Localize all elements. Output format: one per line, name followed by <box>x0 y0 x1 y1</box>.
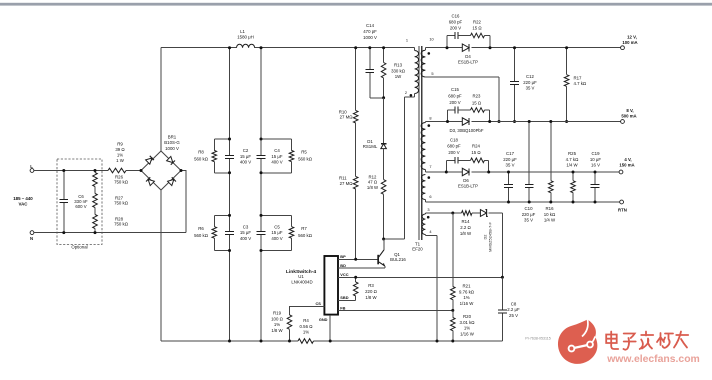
svg-text:600 V: 600 V <box>75 204 86 209</box>
elecfans watermark logo <box>558 320 597 364</box>
svg-text:560 kΩ: 560 kΩ <box>194 156 209 161</box>
svg-text:8 V,: 8 V, <box>626 108 633 113</box>
resistor R14 <box>462 211 473 216</box>
svg-text:1W: 1W <box>395 74 402 79</box>
svg-text:PI-7638-053115: PI-7638-053115 <box>525 337 551 341</box>
wire collector node <box>384 238 405 240</box>
svg-text:R20: R20 <box>463 314 472 319</box>
input terminal N <box>30 231 34 235</box>
svg-text:R23: R23 <box>473 94 481 99</box>
svg-text:16 V: 16 V <box>591 163 600 168</box>
svg-text:R19: R19 <box>273 311 282 316</box>
bridge rectifier BR1 <box>141 151 181 190</box>
svg-text:680 pF: 680 pF <box>448 94 462 99</box>
svg-text:27 MΩ: 27 MΩ <box>340 181 354 186</box>
svg-text:12 V,: 12 V, <box>627 34 637 39</box>
svg-text:3.01 kΩ: 3.01 kΩ <box>459 320 475 325</box>
svg-text:2.2 μF: 2.2 μF <box>507 307 520 312</box>
svg-text:400 V: 400 V <box>240 236 251 241</box>
svg-text:R9: R9 <box>117 142 123 147</box>
svg-text:N: N <box>30 236 33 241</box>
svg-text:RS1ML: RS1ML <box>363 144 378 149</box>
svg-text:1%: 1% <box>303 330 309 335</box>
bus wire 2 <box>260 48 262 156</box>
svg-text:C4: C4 <box>274 148 280 153</box>
svg-text:200 V: 200 V <box>448 150 459 155</box>
svg-text:CS: CS <box>315 301 321 306</box>
svg-text:15 μF: 15 μF <box>240 230 252 235</box>
output terminal 4V <box>619 170 623 174</box>
elecfans watermark text <box>606 332 688 350</box>
svg-text:6: 6 <box>429 194 431 199</box>
svg-text:D2: D2 <box>482 235 487 240</box>
resistor R13 <box>383 48 385 63</box>
svg-text:LNK4004D: LNK4004D <box>291 280 312 285</box>
svg-text:C10: C10 <box>525 206 534 211</box>
svg-text:R25: R25 <box>568 151 577 156</box>
diode D1 <box>383 98 385 144</box>
svg-text:ES1B-LTP: ES1B-LTP <box>458 59 478 64</box>
pin BP <box>338 258 378 260</box>
resistor R7 <box>291 215 293 226</box>
svg-text:9.76 kΩ: 9.76 kΩ <box>459 289 475 294</box>
svg-text:220 μF: 220 μF <box>503 157 517 162</box>
svg-text:VAC: VAC <box>19 202 29 207</box>
resistor R10 <box>355 48 357 111</box>
capacitor C3 <box>225 231 234 233</box>
capacitor C4 <box>257 154 266 156</box>
svg-text:560 kΩ: 560 kΩ <box>298 156 313 161</box>
input terminal L <box>30 169 34 173</box>
svg-text:1000 V: 1000 V <box>363 35 377 40</box>
svg-text:1/8 W: 1/8 W <box>271 328 283 333</box>
snubber C15 R23 branch <box>447 110 449 122</box>
svg-text:C16: C16 <box>452 13 460 18</box>
svg-text:10 kΩ: 10 kΩ <box>544 212 556 217</box>
svg-text:2.2 Ω: 2.2 Ω <box>460 225 471 230</box>
svg-text:560 kΩ: 560 kΩ <box>194 233 209 238</box>
svg-text:R21: R21 <box>463 284 472 289</box>
svg-text:BR1: BR1 <box>168 135 177 140</box>
capacitor C19 <box>594 172 596 184</box>
resistor R25 <box>572 172 574 181</box>
diode D4 <box>462 44 469 51</box>
svg-text:FB: FB <box>340 305 345 310</box>
svg-text:C8: C8 <box>511 301 517 306</box>
wire drain riser to pin 2 <box>404 97 406 239</box>
svg-text:D6: D6 <box>463 178 469 183</box>
svg-text:27 MΩ: 27 MΩ <box>340 115 354 120</box>
svg-text:200 V: 200 V <box>450 25 461 30</box>
svg-text:1/8 W: 1/8 W <box>367 185 379 190</box>
svg-text:220 μF: 220 μF <box>522 212 536 217</box>
wire 8V rail <box>425 121 462 123</box>
capacitor C5 <box>257 231 266 233</box>
svg-text:R8: R8 <box>198 150 204 155</box>
transformer secondary winding 7-6 <box>421 175 425 200</box>
diode D6 <box>462 168 469 175</box>
pin CS <box>290 306 325 314</box>
snubber C18 R24 branch <box>445 160 447 172</box>
svg-text:R12: R12 <box>369 174 377 179</box>
pin BD <box>338 267 385 269</box>
wire aux pin3 line <box>425 212 461 214</box>
transformer secondary winding 10-5 <box>424 48 426 51</box>
svg-text:1580 μH: 1580 μH <box>237 34 254 39</box>
transistor Q1 <box>354 258 357 261</box>
svg-text:15 μF: 15 μF <box>271 154 283 159</box>
pin SBD <box>338 299 356 301</box>
svg-text:R5: R5 <box>301 150 307 155</box>
svg-text:R16: R16 <box>546 206 555 211</box>
svg-text:470 pF: 470 pF <box>363 29 377 34</box>
svg-text:BD: BD <box>340 263 346 268</box>
svg-text:680 pF: 680 pF <box>447 144 461 149</box>
aux polarity dot pin3 <box>427 216 430 219</box>
svg-text:R7: R7 <box>301 226 307 231</box>
secondary polarity dot pin10 <box>428 52 431 55</box>
node group upper <box>214 138 229 140</box>
svg-text:100 Ω: 100 Ω <box>271 316 283 321</box>
svg-text:750 kΩ: 750 kΩ <box>114 180 129 185</box>
svg-text:EF20: EF20 <box>412 247 423 252</box>
svg-text:BUL216: BUL216 <box>390 257 406 262</box>
capacitor C14 <box>369 48 371 70</box>
svg-text:0.56 Ω: 0.56 Ω <box>300 324 314 329</box>
wire RTN rail <box>425 201 619 203</box>
svg-text:RTN: RTN <box>618 207 627 212</box>
svg-text:SBD: SBD <box>340 295 348 300</box>
svg-text:C2: C2 <box>243 148 249 153</box>
resistor R9 <box>108 168 126 173</box>
optional dashed box <box>57 159 102 245</box>
svg-text:35 V: 35 V <box>506 163 515 168</box>
svg-text:39 Ω: 39 Ω <box>115 147 125 152</box>
svg-text:1/4 W: 1/4 W <box>544 218 556 223</box>
svg-text:BP: BP <box>340 254 346 259</box>
svg-text:680 pF: 680 pF <box>449 19 463 24</box>
svg-text:5: 5 <box>431 71 433 76</box>
resistor R26 <box>94 171 96 173</box>
svg-text:1/8 W: 1/8 W <box>460 231 472 236</box>
svg-text:C14: C14 <box>366 23 375 28</box>
output terminal RTN <box>620 200 624 204</box>
resistor R12 <box>381 180 386 195</box>
svg-text:400 V: 400 V <box>271 159 282 164</box>
snubber C16 R22 branch <box>446 36 448 48</box>
wire bridge top to top rail <box>160 48 162 151</box>
resistor R5 <box>291 139 293 150</box>
svg-text:1/16 W: 1/16 W <box>460 301 475 306</box>
wire aux pin4 return <box>425 235 437 237</box>
svg-text:47 Ω: 47 Ω <box>368 180 378 185</box>
svg-text:750 kΩ: 750 kΩ <box>114 201 129 206</box>
svg-text:R24: R24 <box>472 144 480 149</box>
wire L line <box>34 170 108 172</box>
capacitor C6 <box>63 171 65 200</box>
page top border bar <box>0 3 712 6</box>
resistor R6 <box>213 215 215 226</box>
svg-text:400 V: 400 V <box>240 159 251 164</box>
svg-text:1/4 W: 1/4 W <box>566 163 578 168</box>
svg-text:www.elecfans.com: www.elecfans.com <box>606 354 700 365</box>
svg-text:185 – 440: 185 – 440 <box>13 196 33 201</box>
resistor R17 <box>566 48 568 75</box>
svg-text:D4: D4 <box>465 54 471 59</box>
resistor R21 <box>452 213 454 287</box>
secondary polarity dot pin7 <box>428 176 431 179</box>
wire top rail <box>161 47 237 49</box>
svg-text:MMSZ5245B-7-F: MMSZ5245B-7-F <box>488 221 493 251</box>
svg-text:4 V,: 4 V, <box>624 157 631 162</box>
svg-text:C5: C5 <box>274 225 280 230</box>
transformer auxiliary winding 3-4 <box>424 213 426 214</box>
svg-text:1%: 1% <box>117 153 123 158</box>
output terminal 8V <box>621 120 625 124</box>
svg-text:15 μF: 15 μF <box>240 154 252 159</box>
capacitor C17 <box>508 172 510 184</box>
svg-text:330 kΩ: 330 kΩ <box>391 68 406 73</box>
svg-text:C17: C17 <box>506 151 515 156</box>
svg-text:GND: GND <box>319 317 328 322</box>
svg-text:2: 2 <box>405 90 407 95</box>
svg-text:1/8 W: 1/8 W <box>365 295 377 300</box>
wire clamp node <box>370 97 384 99</box>
svg-text:3: 3 <box>427 207 429 212</box>
svg-text:1%: 1% <box>463 295 469 300</box>
resistor R8 <box>213 139 215 150</box>
svg-text:15 Ω: 15 Ω <box>472 100 482 105</box>
svg-text:100 mA: 100 mA <box>622 40 637 45</box>
svg-text:R13: R13 <box>394 63 403 68</box>
svg-text:R3: R3 <box>368 283 374 288</box>
svg-text:15 μF: 15 μF <box>271 230 283 235</box>
svg-text:1000 V: 1000 V <box>165 146 179 151</box>
wire pin5 to 8V rail <box>425 76 499 78</box>
transformer T1 core <box>418 46 420 240</box>
capacitor C8 <box>501 277 503 310</box>
svg-text:4.7 kΩ: 4.7 kΩ <box>574 81 587 86</box>
resistor R3 <box>355 277 357 282</box>
svg-text:35 V: 35 V <box>524 218 533 223</box>
svg-text:1 W: 1 W <box>116 158 125 163</box>
svg-text:B10S-G: B10S-G <box>164 140 180 145</box>
diode D2 zener <box>472 212 480 214</box>
svg-text:15 Ω: 15 Ω <box>472 25 482 30</box>
svg-text:ES1B-LTP: ES1B-LTP <box>458 183 478 188</box>
svg-text:R6: R6 <box>198 226 204 231</box>
svg-text:1: 1 <box>406 38 408 43</box>
svg-text:C12: C12 <box>526 74 534 79</box>
svg-text:R14: R14 <box>462 219 471 224</box>
node group lower <box>214 214 229 216</box>
secondary polarity dot pin8 <box>428 124 431 127</box>
svg-text:220 μF: 220 μF <box>523 80 537 85</box>
resistor R20 <box>452 310 454 317</box>
transformer primary winding <box>414 48 416 51</box>
svg-text:R4: R4 <box>303 318 309 323</box>
svg-text:1%: 1% <box>274 322 280 327</box>
wire 4V rail <box>425 171 462 173</box>
capacitor C2 <box>225 154 234 156</box>
svg-text:R22: R22 <box>473 19 481 24</box>
svg-text:400 V: 400 V <box>271 236 282 241</box>
primary polarity dot <box>410 94 413 97</box>
svg-text:C3: C3 <box>243 225 249 230</box>
capacitor C12 <box>514 48 516 82</box>
inductor L1 <box>237 44 255 47</box>
svg-text:150 mA: 150 mA <box>619 163 634 168</box>
op-amp U1 LinkSwitch-4 IC body <box>324 256 338 315</box>
svg-text:10 μF: 10 μF <box>590 157 602 162</box>
wire N to bridge right corner <box>181 171 186 233</box>
output terminal 12V <box>621 46 625 50</box>
svg-text:1/16 W: 1/16 W <box>460 331 475 336</box>
svg-text:7: 7 <box>429 164 431 169</box>
pin FB <box>338 309 453 311</box>
svg-text:25 V: 25 V <box>509 313 518 318</box>
svg-text:200 V: 200 V <box>449 100 460 105</box>
transformer secondary winding 8-7 <box>424 122 426 123</box>
resistor R27 <box>94 187 96 194</box>
resistor R28 <box>94 208 96 215</box>
svg-text:15 Ω: 15 Ω <box>471 150 481 155</box>
svg-text:220 Ω: 220 Ω <box>365 289 377 294</box>
svg-text:C18: C18 <box>450 138 458 143</box>
svg-text:C19: C19 <box>592 151 601 156</box>
wire N line <box>34 232 186 234</box>
wire D2 to VCC node <box>501 213 503 277</box>
svg-text:500 mA: 500 mA <box>621 114 636 119</box>
svg-text:750 kΩ: 750 kΩ <box>114 222 129 227</box>
svg-text:4.7 kΩ: 4.7 kΩ <box>566 157 579 162</box>
pin VCC <box>338 276 502 278</box>
svg-text:C15: C15 <box>451 87 459 92</box>
svg-text:Optional: Optional <box>71 245 87 250</box>
bus wire 1 <box>229 48 231 156</box>
resistor R19 <box>287 315 292 330</box>
svg-text:35 V: 35 V <box>526 86 535 91</box>
wire bottom rail <box>161 340 298 342</box>
svg-text:560 kΩ: 560 kΩ <box>298 233 313 238</box>
svg-text:1%: 1% <box>464 326 470 331</box>
svg-text:L: L <box>30 164 33 169</box>
svg-text:8: 8 <box>429 115 431 120</box>
svg-text:D3, 30BQ100PbF: D3, 30BQ100PbF <box>450 128 484 133</box>
wire bridge bottom to bottom rail <box>160 190 162 341</box>
wire 12V rail <box>425 47 462 49</box>
capacitor C10 <box>528 122 530 185</box>
svg-text:U1: U1 <box>298 274 304 279</box>
svg-text:VCC: VCC <box>340 272 348 277</box>
resistor R4 <box>298 339 314 344</box>
pin GND <box>329 315 331 341</box>
diode D3 <box>462 118 469 125</box>
resistor R16 <box>550 122 552 181</box>
resistor R11 <box>355 123 357 177</box>
